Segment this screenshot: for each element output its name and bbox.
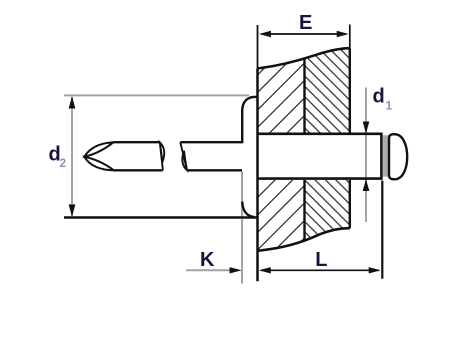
head flange outline lower corner [242,202,255,218]
rivet body tube [257,88,382,223]
break mark right piece [180,142,187,170]
mandrel stem left piece bottom edge [114,169,163,171]
break mark left piece [160,142,164,170]
plate bottom broken edge [258,228,350,251]
extension line d2 top [64,94,249,96]
mandrel tip upper leaf [84,142,113,156]
dimension line d2 [71,97,73,216]
svg-text:2: 2 [60,156,67,170]
mandrel tip lower leaf [84,157,114,171]
dimension line L [261,269,379,271]
extension line E left [257,25,259,69]
extension line K (gray, under head face) [241,219,243,284]
arrow K [230,267,242,273]
dimension line d1 (through tube) [365,88,367,223]
plate right face [349,48,351,228]
svg-text:1: 1 [386,99,393,113]
svg-text:L: L [315,249,327,271]
extension line d2 bottom [64,216,259,219]
mandrel neck washer [383,135,388,177]
svg-text:K: K [200,249,215,271]
arrow d1 down [363,122,370,134]
arrow L left [259,267,271,273]
arrow d1 up [363,179,370,191]
arrow L right [369,267,381,273]
head flange outline upper [242,97,257,143]
dimension line K [186,269,238,271]
rivet head flange [242,97,257,218]
arrow E left [259,31,271,37]
mandrel stem right piece bottom edge [187,169,242,171]
joint line between plates [303,58,305,241]
svg-text:d: d [373,86,385,108]
mandrel stem right piece top edge [180,141,242,143]
arrow d2 top [69,96,76,108]
arrow E right [337,31,349,37]
plate 2 (right sheet, narrow hatch) [305,40,351,255]
plate top broken edge [258,48,350,68]
extension line E right [349,25,351,49]
arrow d2 bottom [69,205,76,217]
mandrel head ball [389,134,407,179]
extension line L right [381,181,383,279]
head flange K extension line (gray through head) [241,172,243,219]
material left face / L extension line [256,69,259,282]
svg-text:E: E [299,12,312,34]
plate 1 (left sheet, wide hatch) [257,40,305,255]
dimension line E [262,33,346,35]
mandrel stem left piece top edge [114,141,160,143]
